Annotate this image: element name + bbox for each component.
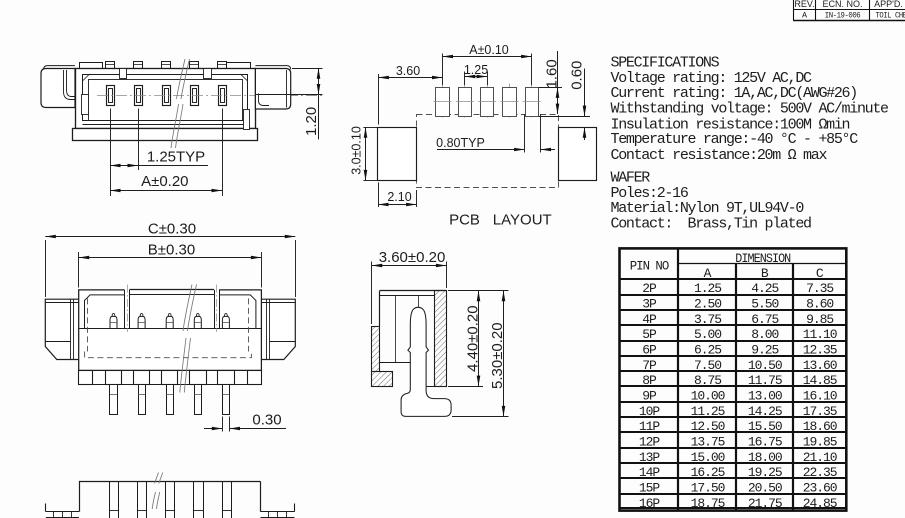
svg-text:2P: 2P bbox=[642, 281, 657, 296]
svg-text:11.10: 11.10 bbox=[803, 327, 837, 342]
svg-text:6.25: 6.25 bbox=[694, 343, 721, 358]
svg-text:13P: 13P bbox=[639, 450, 661, 465]
svg-text:DIMENSION: DIMENSION bbox=[735, 251, 790, 266]
svg-text:8.75: 8.75 bbox=[694, 373, 721, 388]
svg-text:18.75: 18.75 bbox=[691, 496, 725, 511]
svg-text:5P: 5P bbox=[642, 327, 657, 342]
svg-text:1.20: 1.20 bbox=[303, 107, 320, 136]
svg-text:4P: 4P bbox=[642, 312, 657, 327]
svg-text:APP'D.: APP'D. bbox=[874, 0, 903, 9]
svg-text:14.85: 14.85 bbox=[803, 373, 837, 388]
svg-text:15.00: 15.00 bbox=[691, 450, 725, 465]
svg-text:B±0.30: B±0.30 bbox=[148, 242, 195, 259]
svg-text:10P: 10P bbox=[639, 404, 661, 419]
svg-text:2.50: 2.50 bbox=[694, 297, 721, 312]
svg-text:7.35: 7.35 bbox=[806, 281, 833, 296]
svg-text:15P: 15P bbox=[639, 480, 661, 495]
svg-text:LAYOUT: LAYOUT bbox=[493, 212, 552, 229]
svg-text:1.25: 1.25 bbox=[464, 63, 488, 77]
svg-text:16.75: 16.75 bbox=[748, 435, 782, 450]
svg-text:0.80TYP: 0.80TYP bbox=[436, 136, 485, 150]
svg-text:10.50: 10.50 bbox=[748, 358, 782, 373]
svg-text:10.00: 10.00 bbox=[691, 389, 725, 404]
svg-text:6.75: 6.75 bbox=[751, 312, 778, 327]
svg-text:A±0.10: A±0.10 bbox=[469, 43, 509, 57]
svg-text:0.60: 0.60 bbox=[568, 61, 585, 90]
svg-text:A±0.20: A±0.20 bbox=[141, 173, 188, 190]
svg-text:7.50: 7.50 bbox=[694, 358, 721, 373]
svg-text:3.75: 3.75 bbox=[694, 312, 721, 327]
svg-text:16.25: 16.25 bbox=[691, 465, 725, 480]
svg-text:1.25: 1.25 bbox=[694, 281, 721, 296]
svg-text:12.50: 12.50 bbox=[691, 419, 725, 434]
svg-text:21.75: 21.75 bbox=[748, 496, 782, 511]
svg-text:PIN NO: PIN NO bbox=[630, 258, 670, 273]
svg-text:24.85: 24.85 bbox=[803, 496, 837, 511]
svg-text:Contact resistance:20m Ω max: Contact resistance:20m Ω max bbox=[611, 147, 828, 164]
svg-text:PCB: PCB bbox=[449, 212, 480, 229]
svg-text:3.60: 3.60 bbox=[396, 64, 420, 78]
svg-text:7P: 7P bbox=[642, 358, 657, 373]
svg-text:4.40±0.20: 4.40±0.20 bbox=[465, 305, 482, 372]
svg-text:17.50: 17.50 bbox=[691, 480, 725, 495]
svg-text:5.50: 5.50 bbox=[751, 297, 778, 312]
svg-text:C±0.30: C±0.30 bbox=[148, 220, 196, 237]
svg-text:12P: 12P bbox=[639, 435, 661, 450]
svg-text:13.00: 13.00 bbox=[748, 389, 782, 404]
svg-text:Temperature range:-40 °C - +85: Temperature range:-40 °C - +85°C bbox=[611, 131, 859, 148]
svg-text:1.25TYP: 1.25TYP bbox=[147, 148, 205, 165]
svg-text:9P: 9P bbox=[642, 389, 657, 404]
svg-text:19.85: 19.85 bbox=[803, 435, 837, 450]
svg-text:0.30: 0.30 bbox=[252, 411, 281, 428]
svg-text:1.60: 1.60 bbox=[544, 59, 561, 88]
svg-text:2.10: 2.10 bbox=[387, 190, 411, 204]
svg-text:15.50: 15.50 bbox=[748, 419, 782, 434]
svg-text:IN-19-006: IN-19-006 bbox=[825, 11, 861, 21]
svg-text:14P: 14P bbox=[639, 465, 661, 480]
svg-text:8P: 8P bbox=[642, 373, 657, 388]
svg-text:TOIL CHEN: TOIL CHEN bbox=[876, 11, 905, 21]
svg-text:13.60: 13.60 bbox=[803, 358, 837, 373]
svg-text:19.25: 19.25 bbox=[748, 465, 782, 480]
svg-text:21.10: 21.10 bbox=[803, 450, 837, 465]
svg-text:16.10: 16.10 bbox=[803, 389, 837, 404]
svg-text:14.25: 14.25 bbox=[748, 404, 782, 419]
svg-text:3P: 3P bbox=[642, 297, 657, 312]
svg-text:16P: 16P bbox=[639, 496, 661, 511]
svg-text:18.00: 18.00 bbox=[748, 450, 782, 465]
svg-text:A: A bbox=[802, 11, 808, 21]
svg-text:4.25: 4.25 bbox=[751, 281, 778, 296]
svg-text:11.25: 11.25 bbox=[691, 404, 725, 419]
svg-text:11P: 11P bbox=[639, 419, 661, 434]
svg-text:Contact: Brass,Tin plated: Contact: Brass,Tin plated bbox=[611, 215, 812, 232]
svg-text:REV.: REV. bbox=[794, 0, 814, 9]
svg-text:9.85: 9.85 bbox=[806, 312, 833, 327]
svg-text:3.60±0.20: 3.60±0.20 bbox=[379, 249, 446, 266]
svg-text:3.0±0.10: 3.0±0.10 bbox=[350, 126, 364, 175]
svg-text:5.30±0.20: 5.30±0.20 bbox=[489, 322, 506, 389]
svg-text:6P: 6P bbox=[642, 343, 657, 358]
svg-text:8.00: 8.00 bbox=[751, 327, 778, 342]
svg-text:12.35: 12.35 bbox=[803, 343, 837, 358]
svg-text:13.75: 13.75 bbox=[691, 435, 725, 450]
svg-text:5.00: 5.00 bbox=[694, 327, 721, 342]
svg-text:18.60: 18.60 bbox=[803, 419, 837, 434]
svg-text:8.60: 8.60 bbox=[806, 297, 833, 312]
svg-text:20.50: 20.50 bbox=[748, 480, 782, 495]
svg-text:ECN. NO.: ECN. NO. bbox=[822, 0, 862, 9]
svg-text:11.75: 11.75 bbox=[748, 373, 782, 388]
svg-text:Withstanding voltage: 500V AC/: Withstanding voltage: 500V AC/minute bbox=[611, 101, 890, 118]
svg-text:9.25: 9.25 bbox=[751, 343, 778, 358]
svg-text:23.60: 23.60 bbox=[803, 480, 837, 495]
svg-text:17.35: 17.35 bbox=[803, 404, 837, 419]
svg-text:22.35: 22.35 bbox=[803, 465, 837, 480]
